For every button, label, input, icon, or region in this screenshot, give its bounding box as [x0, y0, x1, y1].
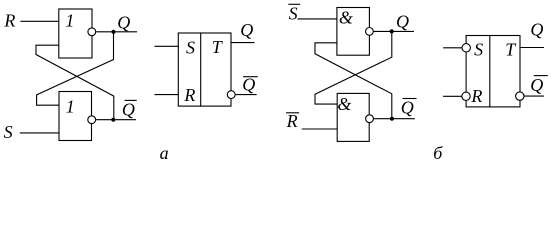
- svg-text:1: 1: [66, 96, 75, 116]
- svg-text:1: 1: [65, 10, 74, 30]
- svg-text:Q: Q: [530, 20, 543, 40]
- svg-text:&: &: [339, 8, 353, 28]
- svg-text:R: R: [286, 111, 298, 131]
- svg-text:T: T: [212, 37, 224, 57]
- svg-text:Q: Q: [242, 74, 255, 94]
- svg-text:а: а: [160, 143, 169, 163]
- svg-text:б: б: [433, 143, 443, 163]
- svg-text:Q: Q: [117, 12, 130, 32]
- svg-text:Q: Q: [530, 75, 543, 95]
- svg-text:T: T: [505, 39, 517, 59]
- svg-text:Q: Q: [122, 99, 135, 119]
- svg-text:R: R: [3, 10, 15, 30]
- svg-text:S: S: [289, 4, 298, 24]
- svg-text:S: S: [474, 40, 483, 60]
- svg-text:R: R: [183, 85, 195, 105]
- svg-text:Q: Q: [240, 20, 253, 40]
- svg-text:S: S: [4, 122, 13, 142]
- svg-text:R: R: [470, 86, 482, 106]
- svg-text:&: &: [337, 94, 351, 114]
- svg-text:S: S: [186, 38, 195, 58]
- svg-text:Q: Q: [401, 98, 414, 118]
- svg-text:Q: Q: [396, 12, 409, 32]
